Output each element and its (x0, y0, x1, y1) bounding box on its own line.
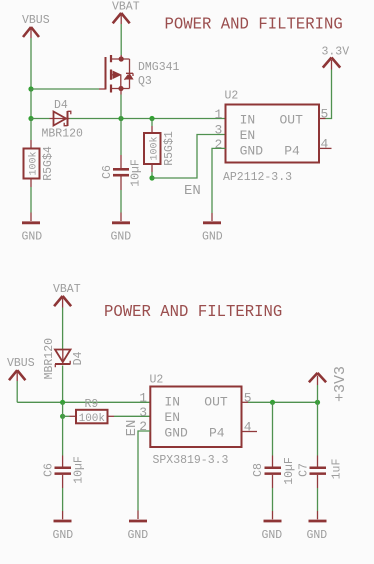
svg-text:1: 1 (214, 107, 222, 122)
svg-text:GND: GND (202, 231, 223, 244)
svg-text:SPX3819-3.3: SPX3819-3.3 (153, 454, 229, 467)
svg-text:GND: GND (307, 529, 328, 542)
svg-text:GND: GND (111, 231, 132, 244)
svg-text:EN: EN (240, 128, 256, 143)
svg-text:2: 2 (214, 137, 222, 152)
svg-text:GND: GND (53, 529, 74, 542)
svg-text:AP2112-3.3: AP2112-3.3 (223, 171, 292, 184)
svg-text:4: 4 (244, 420, 252, 435)
svg-text:VBUS: VBUS (22, 14, 50, 27)
svg-text:P4: P4 (209, 426, 225, 441)
svg-text:VBUS: VBUS (7, 357, 35, 370)
svg-text:C6: C6 (101, 165, 114, 179)
svg-text:GND: GND (240, 144, 264, 159)
svg-text:U2: U2 (150, 374, 164, 387)
svg-text:R5G$1: R5G$1 (163, 131, 176, 166)
svg-text:VBAT: VBAT (53, 283, 81, 296)
svg-text:3.3V: 3.3V (322, 46, 350, 59)
svg-text:OUT: OUT (280, 113, 304, 128)
svg-text:+3V3: +3V3 (332, 366, 349, 402)
svg-text:100k: 100k (27, 151, 39, 175)
svg-text:C7: C7 (298, 463, 311, 477)
svg-text:MBR120: MBR120 (42, 128, 84, 141)
svg-text:5: 5 (244, 391, 252, 406)
svg-text:MBR120: MBR120 (43, 338, 56, 380)
svg-text:4: 4 (321, 137, 329, 152)
svg-text:D4: D4 (54, 99, 68, 112)
svg-text:GND: GND (22, 231, 43, 244)
svg-text:POWER AND FILTERING: POWER AND FILTERING (165, 14, 343, 34)
svg-text:10µF: 10µF (283, 457, 296, 485)
svg-text:100k: 100k (79, 413, 106, 425)
svg-text:GND: GND (164, 426, 188, 441)
svg-text:10µF: 10µF (130, 159, 143, 187)
svg-text:3: 3 (139, 405, 147, 420)
svg-text:R5G$4: R5G$4 (42, 146, 55, 181)
svg-text:2: 2 (139, 419, 147, 434)
svg-text:EN: EN (164, 410, 180, 425)
svg-text:D4: D4 (72, 352, 85, 366)
svg-text:U2: U2 (225, 90, 239, 103)
svg-text:1uF: 1uF (331, 459, 344, 480)
svg-text:10µF: 10µF (73, 456, 86, 484)
svg-text:GND: GND (128, 529, 149, 542)
svg-text:VBAT: VBAT (112, 0, 140, 13)
svg-text:1: 1 (139, 391, 147, 406)
svg-text:Q3: Q3 (138, 75, 152, 88)
svg-text:3: 3 (214, 123, 222, 138)
svg-text:GND: GND (262, 529, 283, 542)
svg-text:IN: IN (164, 395, 180, 410)
svg-text:5: 5 (321, 107, 329, 122)
svg-text:IN: IN (240, 113, 256, 128)
svg-text:OUT: OUT (204, 395, 228, 410)
svg-text:C6: C6 (43, 463, 56, 477)
svg-text:P4: P4 (284, 144, 300, 159)
svg-text:DMG341: DMG341 (138, 61, 180, 74)
svg-text:100k: 100k (148, 136, 160, 160)
svg-text:C8: C8 (252, 463, 265, 477)
svg-text:EN: EN (184, 183, 201, 199)
svg-text:POWER AND FILTERING: POWER AND FILTERING (104, 301, 282, 321)
